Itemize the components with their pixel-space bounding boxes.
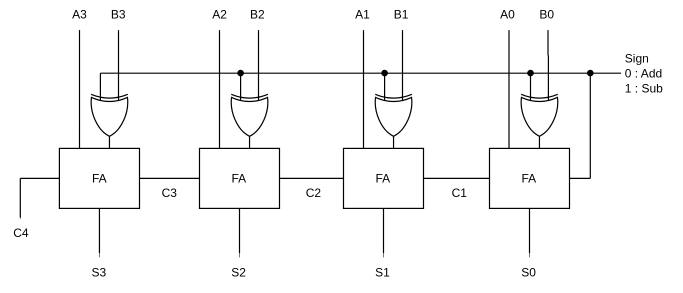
svg-text:FA: FA (92, 171, 107, 185)
svg-text:0 : Add: 0 : Add (625, 67, 662, 81)
svg-text:FA: FA (232, 171, 247, 185)
svg-text:A0: A0 (500, 8, 515, 22)
svg-text:A3: A3 (72, 8, 87, 22)
svg-text:Sign: Sign (625, 52, 649, 66)
svg-text:S2: S2 (231, 266, 246, 280)
svg-text:B3: B3 (111, 8, 126, 22)
svg-text:A1: A1 (355, 8, 370, 22)
svg-text:S1: S1 (375, 266, 390, 280)
svg-text:S0: S0 (521, 266, 536, 280)
svg-text:1 : Sub: 1 : Sub (625, 82, 663, 96)
svg-text:B2: B2 (250, 8, 265, 22)
svg-text:C3: C3 (162, 186, 178, 200)
svg-text:S3: S3 (92, 266, 107, 280)
svg-text:C1: C1 (452, 186, 468, 200)
svg-text:A2: A2 (212, 8, 227, 22)
svg-text:FA: FA (376, 171, 391, 185)
svg-text:B0: B0 (539, 8, 554, 22)
svg-text:C2: C2 (306, 186, 322, 200)
svg-text:B1: B1 (394, 8, 409, 22)
svg-text:C4: C4 (13, 226, 29, 240)
svg-text:FA: FA (522, 171, 537, 185)
